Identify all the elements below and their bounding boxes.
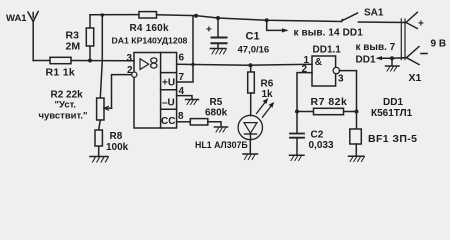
ground under LED xyxy=(243,154,258,160)
svg-text:2М: 2М xyxy=(66,41,81,53)
arrowhead to pin 7 DD1 xyxy=(376,56,383,60)
resistor R5 xyxy=(190,119,208,125)
wire op-amp output pin 6 to DD1.1 pin 1 xyxy=(177,64,312,65)
svg-text:К561ТЛ1: К561ТЛ1 xyxy=(371,108,413,119)
svg-text:R5: R5 xyxy=(210,97,223,108)
svg-text:6: 6 xyxy=(179,53,185,64)
svg-text:1k: 1k xyxy=(262,89,274,100)
antenna WA1 xyxy=(28,12,38,61)
junction dot R2 at rail xyxy=(101,13,105,17)
svg-text:9 В: 9 В xyxy=(431,39,447,50)
svg-text:DD1: DD1 xyxy=(383,97,403,108)
ground at R5 xyxy=(215,127,228,132)
junction dot R7 right xyxy=(355,110,359,114)
wire -U pin 4 to ground xyxy=(177,96,192,99)
junction dot C1 at rail xyxy=(216,16,220,20)
svg-text:DD1: DD1 xyxy=(356,55,376,66)
capacitor C1 xyxy=(212,18,227,48)
svg-text:2: 2 xyxy=(127,65,133,76)
svg-text:DD1.1: DD1.1 xyxy=(313,45,342,56)
svg-text:"Уст.: "Уст. xyxy=(55,100,77,111)
svg-text:HL1 АЛ307Б: HL1 АЛ307Б xyxy=(195,140,248,150)
capacitor C2 xyxy=(290,134,304,138)
LED HL1 xyxy=(238,115,262,153)
ground under C1 xyxy=(211,49,227,55)
svg-text:чувствит.": чувствит." xyxy=(39,111,88,122)
svg-text:R6: R6 xyxy=(261,79,274,90)
op-amp cell divider lines xyxy=(161,73,177,110)
logic gate DD1.1 box xyxy=(312,56,336,86)
resistor R6 xyxy=(248,65,255,115)
svg-text:к выв. 14 DD1: к выв. 14 DD1 xyxy=(294,28,364,39)
svg-text:0,033: 0,033 xyxy=(309,140,334,151)
svg-text:C1: C1 xyxy=(246,31,260,43)
arrow to pin 14 DD1 xyxy=(267,20,289,32)
wire CC pin 8 to R5 xyxy=(177,121,191,123)
wire BF1 to ground xyxy=(355,144,357,156)
wire R2 top lead from rail xyxy=(100,15,102,98)
wire gate pin 2 to RC node xyxy=(297,73,312,133)
wire pin 2 to R2 wiper xyxy=(112,75,132,109)
svg-text:3: 3 xyxy=(338,74,344,85)
ground under C2 xyxy=(290,155,305,160)
wire top rail right of R4 xyxy=(157,15,342,22)
resistor R1 xyxy=(50,57,71,63)
potentiometer R2 xyxy=(97,98,112,120)
svg-text:3: 3 xyxy=(127,53,133,64)
svg-text:&: & xyxy=(315,57,322,68)
op-amp inverting input circle xyxy=(132,72,137,77)
svg-text:CC: CC xyxy=(161,116,175,127)
svg-text:R8: R8 xyxy=(110,131,123,142)
wire gate output to BF1 xyxy=(340,71,357,129)
svg-text:к выв. 7: к выв. 7 xyxy=(356,42,396,53)
resistor R3 xyxy=(86,15,93,61)
junction dot minus wire xyxy=(390,56,394,60)
junction dot R6 at output wire xyxy=(249,63,253,67)
connector X1 bottom contact xyxy=(407,47,420,65)
svg-text:SA1: SA1 xyxy=(364,8,384,19)
svg-text:R1 1k: R1 1k xyxy=(46,67,76,79)
resistor R8 xyxy=(95,120,102,156)
svg-text:C2: C2 xyxy=(311,130,324,141)
ground under BF1 xyxy=(349,156,365,161)
svg-text:R7 82k: R7 82k xyxy=(311,96,348,108)
minus sign battery xyxy=(421,53,427,55)
wire R1 to op-amp pin 3 xyxy=(71,60,134,62)
svg-text:DA1 КР140УД1208: DA1 КР140УД1208 xyxy=(112,36,188,46)
gate output inversion circle xyxy=(333,67,339,73)
junction dot R7 left / C2 xyxy=(295,110,299,114)
resistor R4 xyxy=(139,12,157,18)
svg-text:–U: –U xyxy=(162,98,175,109)
junction dot arrow stub at rail xyxy=(265,18,269,22)
svg-text:8: 8 xyxy=(178,111,184,122)
resistor R7 xyxy=(297,108,357,114)
ground under R8 xyxy=(90,157,108,163)
svg-text:X1: X1 xyxy=(409,72,422,84)
wire antenna to R1 xyxy=(33,60,50,62)
connector X1 double lines xyxy=(401,19,405,60)
wire C2 to ground xyxy=(296,138,298,155)
op-amp inner divider xyxy=(160,53,162,129)
buzzer BF1 xyxy=(350,129,362,144)
wire R5 to ground xyxy=(208,122,221,127)
svg-text:BF1 ЗП-5: BF1 ЗП-5 xyxy=(368,133,417,145)
svg-text:+U: +U xyxy=(162,78,175,89)
ground at -U pin 4 xyxy=(186,100,199,105)
svg-text:WA1: WA1 xyxy=(6,13,27,24)
svg-text:47,0/16: 47,0/16 xyxy=(238,45,270,56)
svg-text:+: + xyxy=(418,19,424,30)
svg-text:680k: 680k xyxy=(205,108,228,119)
wire +U pin 7 riser to rail xyxy=(177,16,193,82)
svg-text:+: + xyxy=(206,25,212,36)
junction dot at +U riser crossing xyxy=(191,63,194,66)
op-amp triangle symbol xyxy=(140,59,149,70)
svg-text:R4 160k: R4 160k xyxy=(130,23,169,34)
junction dot R4 right / +U riser xyxy=(194,14,198,18)
node A junction dot (R3 bottom) xyxy=(88,59,92,63)
svg-text:100k: 100k xyxy=(106,142,129,153)
connector X1 top contact xyxy=(406,12,417,28)
op-amp U1 DA1 box xyxy=(134,53,177,129)
wire top rail left segment xyxy=(90,14,139,16)
switch SA1 xyxy=(342,13,407,23)
wire battery minus to arrow xyxy=(379,57,407,60)
ground at battery minus xyxy=(386,58,400,71)
LED arrows xyxy=(257,98,275,117)
op-amp infinity symbol xyxy=(151,58,157,63)
